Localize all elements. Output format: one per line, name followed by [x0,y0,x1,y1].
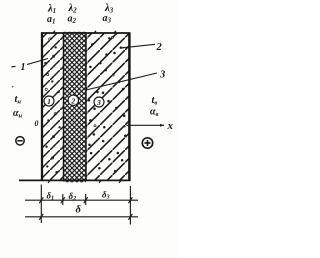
svg-text:1: 1 [21,62,26,73]
circled layer number 3 [94,97,104,107]
svg-text:δ: δ [76,205,82,216]
wall left edge [41,33,43,182]
leader line for label 2 [121,44,155,48]
svg-text:1: 1 [47,97,51,106]
plus symbol (warm side) [142,138,152,148]
svg-text:x: x [167,120,174,132]
wall layer 2 (insulation, crosshatch) [64,32,87,183]
hatch overshoot ticks bottom edge [48,180,122,183]
leader line for label 1 [27,59,48,65]
wall layer 3 (inner layer) [86,33,130,181]
dimension line total delta [25,216,138,218]
minus symbol (cold side) [16,137,24,145]
wall layer 1 (outer plaster) [42,33,64,181]
leader line for label 3 [86,73,157,90]
extension line left [40,185,42,224]
wall right edge [128,33,131,182]
tick total right [128,214,132,220]
layer boundary 2-3 [85,33,87,180]
x axis arrowhead [160,124,164,127]
aggregate dots layer 1 [44,38,60,174]
extension line delta1/delta2 [62,194,64,205]
svg-text:2: 2 [70,96,75,105]
circled layer number 2 [68,95,78,105]
aggregate dots layer 3 [88,36,127,172]
circled layer number 1 [44,96,54,106]
wall bottom edge (extends left) [19,179,130,181]
layer boundary 1-2 [63,33,65,180]
scan speck near axis [124,125,126,127]
tick d1/d2 [61,197,65,203]
extension line right [129,186,131,225]
wall top edge [41,32,130,34]
tick total left [39,214,43,220]
svg-text:3: 3 [159,70,165,81]
svg-text:3: 3 [96,98,101,107]
scan speck left [12,86,14,88]
dash before label 1 [12,65,16,68]
tick d2/d3 [84,197,88,203]
dimension line delta1-delta3 [25,199,138,201]
extension line delta2/delta3 [85,194,87,205]
svg-text:0: 0 [35,119,39,128]
tick d1 left [39,197,43,203]
tick d3 right [128,197,132,203]
x axis [127,124,165,126]
svg-text:2: 2 [156,42,163,53]
hatch overshoot ticks top edge [53,31,117,34]
